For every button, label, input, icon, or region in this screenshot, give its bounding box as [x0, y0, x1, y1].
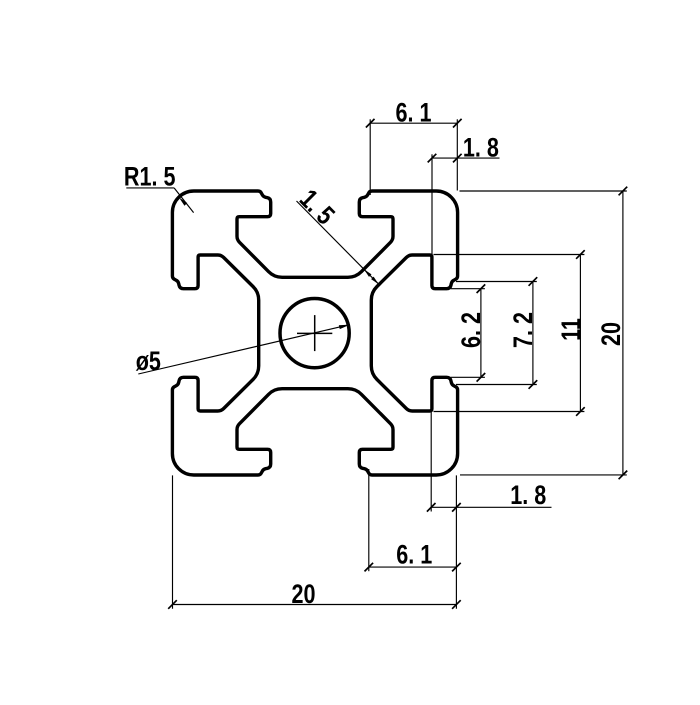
svg-text:6. 2: 6. 2 — [457, 312, 487, 348]
dim 6.1 top: dimension line — [370, 122, 457, 124]
dim 11 right: dimension line — [579, 255, 581, 412]
dim 6.1 bottom: extension line — [368, 469, 370, 571]
center crosshair — [297, 332, 332, 334]
svg-text:6. 1: 6. 1 — [395, 98, 431, 128]
dim 7.2 right: extension lines — [456, 281, 537, 283]
dim 1.8 bottom: dimension line with right tail — [431, 506, 551, 508]
svg-text:1. 5: 1. 5 — [293, 184, 340, 231]
center hole circle — [280, 299, 349, 368]
dim 7.2 right: dimension line — [532, 282, 534, 385]
dim 6.1 top: extension lines — [369, 119, 371, 195]
dim 6.1 bottom: dimension line — [369, 566, 457, 568]
dim 11 right: extension lines — [434, 254, 585, 256]
dim 20 right: dimension line — [622, 191, 624, 475]
svg-text:20: 20 — [597, 322, 627, 346]
dim 1.8 top: dimension line with right tail — [432, 157, 500, 159]
dim 6.2 right: dimension line — [480, 289, 482, 378]
dim 20 bottom: dimension line — [173, 604, 457, 606]
svg-text:7. 2: 7. 2 — [509, 312, 539, 348]
svg-text:1. 8: 1. 8 — [510, 481, 546, 511]
profile outline: 2020 aluminium extrusion cross-section — [172, 191, 457, 475]
svg-text:6. 1: 6. 1 — [396, 540, 432, 570]
dim 1.8 top: extension line — [431, 154, 433, 254]
dim 20 right: extension lines — [460, 190, 627, 192]
dim 1.8 bottom: extension lines — [430, 412, 432, 512]
dim 20 bottom: extension line — [172, 475, 174, 608]
svg-text:11: 11 — [557, 318, 587, 341]
dim 6.2 right: extension lines — [451, 288, 485, 290]
svg-text:1. 8: 1. 8 — [463, 133, 499, 163]
svg-text:20: 20 — [291, 580, 315, 610]
